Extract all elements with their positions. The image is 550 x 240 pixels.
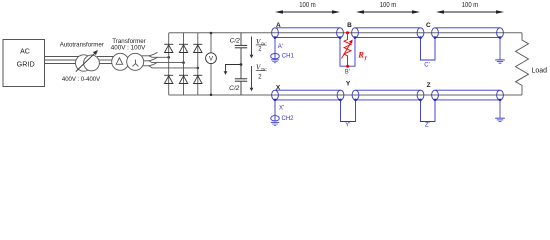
sheath bonding loop C' xyxy=(421,38,436,69)
top DC rail / top conductor wire xyxy=(169,32,522,34)
svg-text:X': X' xyxy=(279,106,284,112)
three-phase wires transformer to rectifier with switch blades xyxy=(138,52,198,68)
cable sheath segment Z-end bottom xyxy=(432,90,504,100)
cable sheath segment C-end top xyxy=(432,28,504,38)
bottom DC rail / bottom conductor wire xyxy=(169,94,522,96)
svg-text:C': C' xyxy=(424,63,429,69)
svg-text:400V : 0-400V: 400V : 0-400V xyxy=(62,77,100,83)
diode D5 xyxy=(179,75,188,83)
junction dots phase taps xyxy=(167,56,199,69)
svg-text:C: C xyxy=(426,22,431,29)
voltage arrow VDC/2 upper xyxy=(250,37,268,59)
voltage arrow VDC/2 lower xyxy=(250,64,268,92)
diode D6 xyxy=(193,75,202,83)
svg-text:GRID: GRID xyxy=(17,62,35,69)
svg-text:DC: DC xyxy=(261,41,267,46)
svg-text:100 m: 100 m xyxy=(462,2,479,9)
sheath junction dots xyxy=(274,36,502,101)
cable sheath segment X-Y bottom xyxy=(272,90,344,100)
sheath bonding loop Y' xyxy=(341,100,356,129)
svg-text:R: R xyxy=(357,49,364,59)
svg-text:DC: DC xyxy=(261,67,267,72)
AC grid source xyxy=(3,40,45,87)
capacitor C/2 upper xyxy=(230,33,248,65)
svg-text:CH2: CH2 xyxy=(282,116,295,122)
svg-text:V: V xyxy=(209,57,213,63)
transformer T2 delta-wye xyxy=(111,38,147,71)
diode D3 xyxy=(193,44,202,52)
svg-text:Z: Z xyxy=(427,82,431,89)
svg-text:C/2: C/2 xyxy=(229,85,240,92)
svg-text:f: f xyxy=(365,55,368,61)
load resistor xyxy=(516,33,548,95)
svg-text:B': B' xyxy=(345,70,350,76)
svg-text:Y: Y xyxy=(346,81,351,88)
svg-text:Z': Z' xyxy=(425,123,430,129)
svg-text:2: 2 xyxy=(258,47,262,53)
sensor drop X' with CH2 probe and earth xyxy=(271,100,294,126)
svg-text:A: A xyxy=(276,22,281,29)
dimension arrow segment A-B 100 m xyxy=(275,2,340,14)
dimension arrow segment B-C 100 m xyxy=(356,2,420,14)
sheath earth far end bottom xyxy=(495,100,505,122)
three-phase wires autotransformer to transformer xyxy=(97,57,116,64)
autotransformer T1 xyxy=(60,42,105,83)
svg-text:A': A' xyxy=(278,44,283,50)
svg-text:2: 2 xyxy=(258,74,262,80)
diode D4 xyxy=(164,75,173,83)
svg-text:100 m: 100 m xyxy=(380,2,397,9)
svg-text:100 m: 100 m xyxy=(299,2,316,9)
svg-text:400V : 100V: 400V : 100V xyxy=(111,45,146,52)
diode D2 xyxy=(179,44,188,52)
diode D1 xyxy=(164,44,173,52)
cable sheath segment A-B top xyxy=(272,28,344,38)
cable sheath segment Y-Z bottom xyxy=(352,90,424,100)
three-phase wires grid to autotransformer xyxy=(45,57,81,64)
svg-text:Autotransformer: Autotransformer xyxy=(60,42,105,49)
voltmeter V1 xyxy=(206,32,217,96)
svg-text:B: B xyxy=(347,22,352,29)
capacitor C/2 lower xyxy=(229,65,247,96)
sensor drop A' with CH1 probe and earth xyxy=(271,38,295,63)
svg-text:X: X xyxy=(276,84,281,91)
svg-text:CH1: CH1 xyxy=(282,53,295,59)
svg-text:C/2: C/2 xyxy=(230,38,241,45)
svg-text:Load: Load xyxy=(532,67,548,74)
svg-text:AC: AC xyxy=(20,49,30,56)
DC midpoint wire with earth arrow xyxy=(224,63,243,75)
sheath bonding loop Z' xyxy=(421,100,436,129)
rectifier bridge legs xyxy=(169,33,198,95)
fault resistor Rf at node B xyxy=(342,31,368,68)
sheath bonding loop B' xyxy=(340,38,355,76)
sheath earth far end top xyxy=(495,38,505,64)
cable sheath segment B-C top xyxy=(352,28,424,38)
dimension arrow segment C-end 100 m xyxy=(436,2,504,14)
svg-text:Y': Y' xyxy=(345,123,350,129)
